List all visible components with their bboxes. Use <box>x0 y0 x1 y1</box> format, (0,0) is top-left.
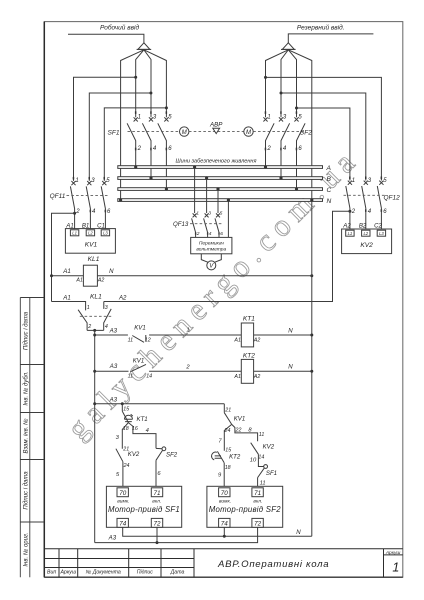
svg-text:72: 72 <box>153 521 161 528</box>
title block <box>44 549 403 577</box>
fan wire N (working) <box>121 50 144 199</box>
svg-text:L1: L1 <box>348 231 353 236</box>
svg-text:Робочий ввід: Робочий ввід <box>100 24 139 32</box>
svg-text:SF2: SF2 <box>300 130 312 137</box>
motor drive SF2 box <box>207 486 283 527</box>
svg-text:14: 14 <box>258 455 264 461</box>
svg-text:KT1: KT1 <box>137 416 148 423</box>
fan wire B (working) <box>144 50 151 117</box>
reserve input feed wire <box>288 34 373 43</box>
svg-text:2: 2 <box>351 209 356 215</box>
svg-text:вкл.: вкл. <box>253 499 262 504</box>
svg-text:Мотор-привід SF1: Мотор-привід SF1 <box>108 505 180 514</box>
svg-text:3: 3 <box>208 210 211 216</box>
wire A1 from QF11 pin2 <box>73 212 76 215</box>
svg-text:1: 1 <box>87 305 90 311</box>
svg-text:Підпис і дата: Підпис і дата <box>23 311 29 350</box>
svg-text:24: 24 <box>224 428 231 434</box>
svg-text:N: N <box>288 327 293 334</box>
svg-text:KL1: KL1 <box>90 293 102 300</box>
svg-text:18: 18 <box>225 465 231 471</box>
svg-text:15: 15 <box>123 406 129 412</box>
svg-text:74: 74 <box>221 521 229 528</box>
svg-text:B: B <box>327 176 332 183</box>
svg-text:M: M <box>182 130 187 136</box>
svg-text:M: M <box>246 130 251 136</box>
SF2 auxiliary contact <box>156 447 162 449</box>
transformer symbol (reserve input) <box>282 43 294 50</box>
svg-text:Перемикач: Перемикач <box>199 240 224 246</box>
svg-text:N: N <box>288 364 293 371</box>
AVR device symbol <box>213 128 220 133</box>
svg-text:KV2: KV2 <box>263 444 275 451</box>
svg-text:A1: A1 <box>75 277 83 283</box>
svg-text:Аркуш: Аркуш <box>385 550 401 556</box>
bus A <box>118 166 323 169</box>
svg-text:11: 11 <box>259 432 265 438</box>
svg-text:C: C <box>327 187 332 194</box>
fan wire N (reserve) <box>288 50 312 199</box>
fan wire A (reserve) <box>266 50 289 117</box>
bus junction dots <box>119 165 313 201</box>
KT1 timed changeover contact 15-18-16 <box>121 404 123 412</box>
svg-text:24: 24 <box>123 463 130 469</box>
svg-text:№ Документа: № Документа <box>86 570 121 576</box>
svg-text:вольтметра: вольтметра <box>196 248 226 253</box>
svg-text:1: 1 <box>75 178 78 184</box>
svg-text:A1: A1 <box>233 374 241 380</box>
svg-text:5: 5 <box>220 210 223 216</box>
svg-text:A2: A2 <box>97 277 105 283</box>
svg-text:1: 1 <box>267 114 270 120</box>
svg-text:N: N <box>109 268 114 275</box>
svg-text:1: 1 <box>352 178 355 184</box>
breaker QF13 <box>194 168 196 213</box>
svg-text:вимк.: вимк. <box>219 499 231 504</box>
svg-text:N: N <box>296 529 301 536</box>
wire to QF11 pole 1 <box>74 77 136 181</box>
voltmeter switch box <box>191 237 232 253</box>
svg-text:4: 4 <box>146 428 149 434</box>
svg-text:SF1: SF1 <box>108 130 120 137</box>
svg-text:1: 1 <box>186 328 189 334</box>
svg-text:QF11: QF11 <box>50 193 66 200</box>
svg-text:KV1: KV1 <box>85 241 98 248</box>
svg-text:72: 72 <box>254 521 262 528</box>
node N vertical <box>311 201 313 536</box>
svg-text:Шини забезпеченого живлення: Шини забезпеченого живлення <box>176 158 257 164</box>
node A3 vertical <box>94 330 96 542</box>
svg-text:70: 70 <box>119 490 127 497</box>
svg-text:3: 3 <box>105 305 108 311</box>
svg-text:Вип: Вип <box>47 570 56 576</box>
svg-text:11: 11 <box>260 480 266 486</box>
fan wire B (reserve) <box>281 50 288 117</box>
KT1 row: KV1 NC contact 11-12 <box>93 334 96 337</box>
svg-text:L1: L1 <box>72 231 77 236</box>
svg-text:Інв. № дубл.: Інв. № дубл. <box>22 371 29 405</box>
svg-text:вимк.: вимк. <box>117 499 129 504</box>
svg-text:QF12: QF12 <box>384 194 401 201</box>
svg-text:Аркуш: Аркуш <box>59 570 76 576</box>
svg-text:A3: A3 <box>108 535 117 542</box>
svg-text:4: 4 <box>209 231 212 237</box>
svg-text:L3: L3 <box>379 231 384 236</box>
svg-text:2: 2 <box>266 146 271 152</box>
KT2 row: KV1 NO contact 11-14 <box>93 370 96 373</box>
svg-text:2: 2 <box>87 324 91 330</box>
svg-text:N: N <box>327 198 332 205</box>
svg-text:KV1: KV1 <box>134 324 146 331</box>
svg-text:KT2: KT2 <box>243 352 255 359</box>
wire to QF12 pole 1 <box>297 108 350 181</box>
svg-text:KV2: KV2 <box>360 242 373 249</box>
svg-text:A: A <box>326 165 332 172</box>
svg-text:Мотор-привід SF2: Мотор-привід SF2 <box>209 505 281 514</box>
svg-text:QF13: QF13 <box>173 221 189 228</box>
motor drive SF1 box <box>106 486 181 527</box>
svg-text:1: 1 <box>196 210 199 216</box>
svg-text:Дата: Дата <box>170 570 185 576</box>
svg-text:70: 70 <box>221 490 229 497</box>
svg-text:A1: A1 <box>62 268 70 275</box>
fan wire C (reserve) <box>288 50 296 117</box>
svg-text:2: 2 <box>75 209 80 215</box>
svg-text:A3: A3 <box>109 397 118 404</box>
wire A3 to motor drive terminals 72 <box>95 527 258 542</box>
wire N to motor drive terminals 74 <box>123 527 312 536</box>
svg-text:2: 2 <box>137 146 142 152</box>
switch SF2 <box>263 117 305 187</box>
svg-text:18: 18 <box>123 426 129 432</box>
motor M2 <box>244 127 253 136</box>
svg-text:Підпис і дата: Підпис і дата <box>23 471 29 510</box>
svg-text:22: 22 <box>235 428 242 434</box>
SF1 auxiliary contact <box>264 465 268 469</box>
svg-text:4: 4 <box>105 324 108 330</box>
svg-text:Підпис: Підпис <box>137 570 154 576</box>
breaker QF12 <box>346 181 384 230</box>
svg-text:21: 21 <box>224 407 231 413</box>
svg-text:SF1: SF1 <box>266 470 277 477</box>
wire A2 from QF12 pin2 <box>348 210 351 213</box>
transformer symbol (working input) <box>138 43 150 50</box>
svg-text:L2: L2 <box>88 231 93 236</box>
svg-text:SF2: SF2 <box>166 452 178 459</box>
svg-text:KL1: KL1 <box>88 256 100 263</box>
svg-text:74: 74 <box>119 521 127 528</box>
svg-text:10: 10 <box>250 458 257 464</box>
svg-text:KT2: KT2 <box>229 453 241 460</box>
wire to QF11 pole 5 <box>104 108 166 181</box>
mechanical link dashes M1-AVR-M2 <box>189 131 244 133</box>
switch SF1 <box>127 117 168 187</box>
mechanical link dashes M2-SF2 <box>253 131 304 133</box>
mechanical link dashes SF1-M1 <box>128 131 180 133</box>
svg-text:A1: A1 <box>62 294 70 301</box>
svg-text:2: 2 <box>196 231 200 237</box>
svg-text:вкл.: вкл. <box>152 499 161 504</box>
svg-text:АВР: АВР <box>209 122 223 129</box>
voltmeter V <box>201 254 208 262</box>
svg-text:14: 14 <box>146 374 152 380</box>
svg-text:A2: A2 <box>118 294 127 301</box>
svg-text:71: 71 <box>254 490 261 497</box>
svg-text:A2: A2 <box>253 374 261 380</box>
svg-text:6: 6 <box>220 231 223 237</box>
wire to QF12 pole 5 <box>266 77 382 180</box>
wire to QF11 pole 3 <box>89 93 151 181</box>
svg-text:A3: A3 <box>109 327 118 334</box>
svg-text:KV1: KV1 <box>234 415 246 422</box>
motor M1 <box>180 127 189 136</box>
svg-text:Взам. інв. №: Взам. інв. № <box>22 418 29 454</box>
svg-text:16: 16 <box>132 426 138 432</box>
svg-text:Інв. № ориг.: Інв. № ориг. <box>22 532 29 566</box>
drawing frame <box>44 22 403 578</box>
svg-text:АВР.Оперативні кола: АВР.Оперативні кола <box>217 559 329 570</box>
fan wire C (working) <box>144 50 167 117</box>
svg-text:A1: A1 <box>233 338 241 344</box>
A3 bottom distribution wire <box>93 402 96 405</box>
bus B <box>118 177 323 180</box>
pin tick marks <box>73 111 382 234</box>
svg-text:12: 12 <box>145 337 151 343</box>
svg-text:1: 1 <box>392 561 399 575</box>
left margin column <box>20 298 44 578</box>
wire to QF12 pole 3 <box>281 93 366 181</box>
bus C <box>118 188 323 191</box>
KV1 changeover contact 21-24-22 <box>223 404 225 413</box>
svg-text:KT1: KT1 <box>243 316 255 323</box>
svg-text:71: 71 <box>153 490 160 497</box>
bus N <box>118 199 323 202</box>
wire N to voltmeter switch <box>227 201 229 237</box>
svg-text:A3: A3 <box>109 363 118 370</box>
svg-text:L2: L2 <box>363 231 368 236</box>
fan wire A (working) <box>136 50 144 117</box>
working input feed wire <box>68 34 144 43</box>
breaker QF11 <box>70 181 106 230</box>
svg-text:Резервний ввід.: Резервний ввід. <box>297 24 345 32</box>
svg-text:11: 11 <box>128 337 134 343</box>
svg-text:KV2: KV2 <box>128 451 140 458</box>
svg-text:L3: L3 <box>103 231 108 236</box>
svg-text:11: 11 <box>128 374 134 380</box>
svg-text:1: 1 <box>138 114 141 120</box>
svg-text:KV1: KV1 <box>133 358 145 365</box>
svg-text:A2: A2 <box>253 338 261 344</box>
